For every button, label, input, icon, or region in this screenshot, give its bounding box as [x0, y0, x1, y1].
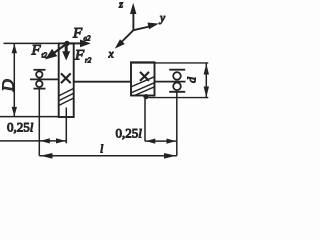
mesh point node on gear2: [143, 94, 148, 99]
bottom-left extension line: [0, 116, 59, 118]
svg-text:D: D: [0, 79, 18, 93]
gear 2 cross mark: [140, 72, 149, 81]
bearing 2 bottom tick: [169, 91, 185, 93]
bearing 1 lower ball: [36, 81, 42, 87]
svg-text:F: F: [74, 48, 85, 64]
gear 1 hatch lines: [59, 88, 74, 105]
bearing 1 (left) top tick: [34, 69, 46, 71]
wire: bearing2 centerline down: [176, 92, 178, 156]
svg-text:0,25l: 0,25l: [116, 126, 143, 141]
bearing 1 bottom tick: [34, 88, 46, 90]
svg-text:y: y: [159, 13, 166, 25]
bearing 1 upper ball: [36, 71, 42, 77]
dimension d line with arrows: [204, 64, 209, 98]
force Fa2 arrow (axial, along shaft): [67, 40, 91, 48]
svg-text:a2: a2: [84, 35, 92, 43]
svg-text:F: F: [72, 26, 83, 42]
svg-text:0,25l: 0,25l: [7, 120, 34, 135]
dimension 0.25l left line: [0, 138, 66, 143]
coordinate axis x: [108, 30, 134, 60]
bearing 2 upper ball: [173, 72, 181, 80]
svg-text:l: l: [100, 142, 104, 156]
gear 1 cross mark: [61, 73, 71, 83]
dimension D line with arrows: [12, 44, 17, 116]
svg-text:x: x: [108, 49, 115, 61]
wire: shaft segment middle (gear1 to gear2): [74, 81, 131, 83]
gear 2 (right wheel) body: [131, 62, 155, 95]
svg-text:F: F: [31, 43, 42, 59]
mesh point node on gear1: [64, 41, 69, 46]
wire: shaft segment right (gear2 through bearing2): [155, 81, 186, 83]
gear 2 hatch lines: [131, 77, 155, 96]
force Ft2 arrow (tangential, diagonal toward viewer): [45, 43, 67, 59]
bottom-right extension line (mesh point to d dimension): [149, 97, 209, 99]
coordinate axis y: [133, 13, 166, 31]
svg-text:t2: t2: [42, 52, 48, 60]
wire: gear2 centerline down: [144, 99, 146, 141]
bearing 2 lower ball: [173, 83, 181, 91]
gear 1 (left wheel) body: [59, 43, 74, 117]
gear1 top edge / D extension line: [4, 42, 75, 44]
wire: bearing1 centerline down: [38, 89, 40, 156]
coordinate axis z: [118, 0, 136, 30]
wire: gear1 centerline down: [65, 108, 67, 144]
dimension l line: [39, 153, 177, 159]
svg-text:z: z: [118, 0, 123, 11]
force Fr2 arrow (radial, down): [62, 43, 70, 60]
svg-text:d: d: [185, 76, 199, 83]
bearing 2 (right) top tick: [169, 69, 185, 71]
top-right extension line (gear2 top to d dimension): [131, 62, 208, 64]
dimension 0.25l right line: [145, 139, 177, 144]
svg-text:r2: r2: [85, 57, 92, 65]
wire: shaft segment left (bearing1 to gear1): [30, 78, 59, 80]
